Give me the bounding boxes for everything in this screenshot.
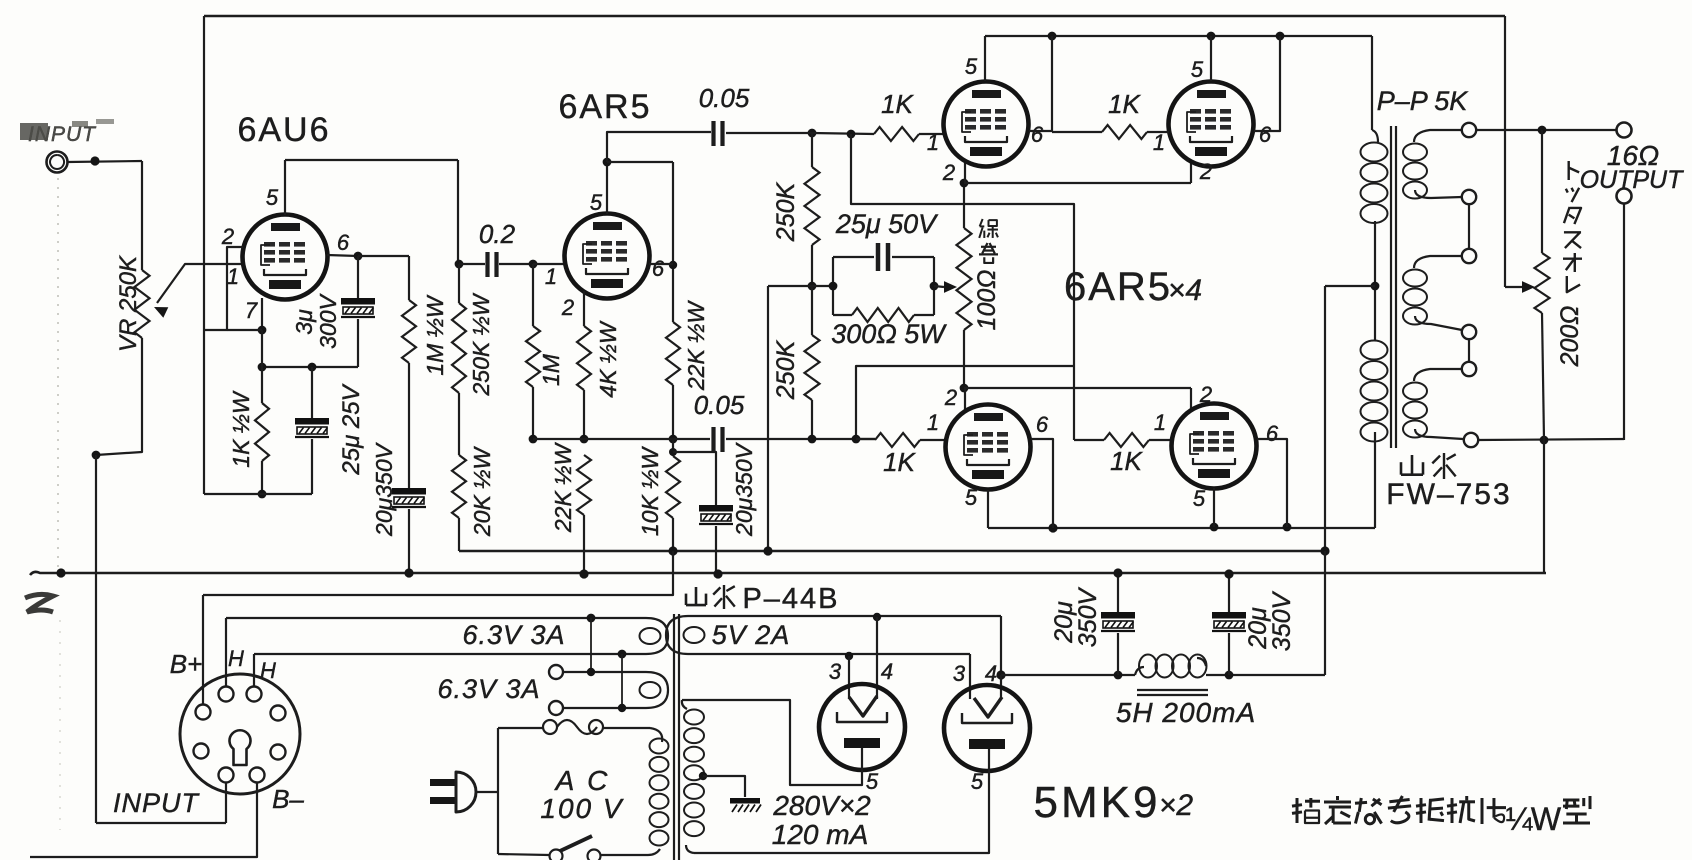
wire to 1K lower-left xyxy=(856,438,875,440)
node ground 20u xyxy=(404,568,413,577)
wire plate node jog up xyxy=(607,132,711,162)
wire heater jumper 1 xyxy=(590,618,592,672)
node filter cap2 xyxy=(1225,671,1234,680)
svg-text:6: 6 xyxy=(1036,412,1049,437)
node ground 22K xyxy=(579,569,588,578)
node 280V center tap xyxy=(699,772,707,780)
transformer T2 OPT core xyxy=(1390,126,1392,448)
socket pin B- xyxy=(250,768,265,783)
output terminal return xyxy=(1617,189,1632,204)
node screen/cap junction xyxy=(354,252,363,261)
terminal 6.3V no.2 b xyxy=(549,701,563,715)
wire V5 cathode stub xyxy=(964,388,966,411)
wire 1M bottom xyxy=(532,387,534,439)
svg-text:FW–753: FW–753 xyxy=(1386,478,1511,511)
node ground filter1 xyxy=(1113,568,1122,577)
node V6 pin5 bus xyxy=(1210,523,1219,532)
svg-text:5: 5 xyxy=(1191,57,1204,82)
svg-text:5V 2A: 5V 2A xyxy=(712,620,791,650)
node cathode resistor top xyxy=(258,363,267,372)
terminal 6.3V no.2 a xyxy=(549,665,563,679)
node lower grid wire 250K xyxy=(808,435,817,444)
ac primary box left xyxy=(497,728,499,854)
node lower cathode xyxy=(960,384,969,393)
wire V6 pin5 riser xyxy=(1213,488,1215,527)
svg-text:3μ: 3μ xyxy=(291,309,317,335)
node B+ bus OPT xyxy=(1320,546,1329,555)
node heater jumper 2b xyxy=(618,704,626,712)
svg-text:3: 3 xyxy=(829,659,842,684)
ac primary box top + fuse xyxy=(498,727,543,729)
wire 1K upper-right feed xyxy=(1052,131,1102,133)
secondary terminal 5 xyxy=(1462,362,1476,376)
svg-text:5: 5 xyxy=(590,190,603,215)
transformer T2 OPT secondary winding C xyxy=(1414,369,1462,381)
node B+ socket crossing xyxy=(671,550,673,552)
wire V6 cathode stub xyxy=(1190,388,1192,409)
node ground bus dot1 xyxy=(56,568,65,577)
resistor 1K stopper lower-right xyxy=(1104,433,1149,447)
wire input return bottom run xyxy=(96,822,226,824)
resistor 100 ohm wirewound hum balance xyxy=(957,228,972,330)
node cathode bottom xyxy=(258,490,267,499)
resistor 300 ohm 5W xyxy=(852,308,914,322)
socket pin NC3 xyxy=(271,745,286,760)
svg-text:1: 1 xyxy=(927,410,939,435)
node rectifier output xyxy=(996,670,1005,679)
wire secondary top to output terminal xyxy=(1476,129,1616,131)
wire cathode network horizontal xyxy=(262,366,358,368)
node grid return B+ bus xyxy=(763,546,772,555)
wire plate node right xyxy=(607,161,673,163)
resistor 1K stopper upper-right xyxy=(1102,125,1147,139)
INPUT jack terminal xyxy=(47,152,68,173)
wire plate bus to OPT xyxy=(1371,36,1373,130)
svg-text:2: 2 xyxy=(944,385,957,410)
wire secondary link A-B xyxy=(1468,204,1470,249)
svg-text:2: 2 xyxy=(1199,382,1212,407)
svg-text:2: 2 xyxy=(942,160,955,185)
node V4 pin6 bus xyxy=(1276,32,1285,41)
wire B+ socket feed xyxy=(203,551,673,595)
wire 0.2 to driver grid xyxy=(499,263,531,265)
wire 100ohm bottom riser xyxy=(963,330,965,388)
resistor 1M grid xyxy=(526,326,540,387)
wire V5 pin6 xyxy=(1031,439,1053,528)
wire border right edge feedback line xyxy=(1504,16,1506,287)
wire V2 pin6 xyxy=(649,263,673,265)
svg-text:6: 6 xyxy=(652,256,665,281)
wire 1M to filter cap xyxy=(408,363,410,488)
wire VR bottom xyxy=(96,338,142,455)
wire V3 pin6 xyxy=(1029,36,1052,131)
svg-text:6AU6: 6AU6 xyxy=(237,111,330,149)
wire top border xyxy=(204,15,1505,18)
rectifier winding 5V 2A xyxy=(666,616,688,654)
wire bias node run xyxy=(533,438,710,440)
resistor 4K 1/2W cathode xyxy=(577,326,591,390)
transformer T2 OPT primary lower xyxy=(1361,341,1388,360)
node speaker feedback tap xyxy=(1538,126,1547,135)
wire 250K to 20K xyxy=(458,393,460,455)
wire V5 pin5 riser xyxy=(987,490,989,528)
wire secondary link B-C xyxy=(1468,339,1470,362)
wire 100ohm top riser xyxy=(963,183,965,228)
transformer T1 core xyxy=(673,614,675,860)
wire 3u cap from screen node xyxy=(357,256,359,298)
svg-text:1M ½W: 1M ½W xyxy=(422,294,448,376)
socket pin H1 xyxy=(219,687,234,702)
smudge mark lower-left xyxy=(25,594,53,612)
svg-text:6AR5: 6AR5 xyxy=(1064,265,1172,309)
resistor 1K stopper upper-left xyxy=(874,127,919,141)
svg-text:4K ½W: 4K ½W xyxy=(595,320,621,398)
ground symbol 280V CT xyxy=(730,798,760,804)
wire V1 pin7 stub xyxy=(261,298,263,330)
svg-text:5: 5 xyxy=(1193,486,1206,511)
svg-text:6AR5: 6AR5 xyxy=(558,88,651,126)
node ground 20u driver xyxy=(713,569,722,578)
capacitor 0.05 upper coupling xyxy=(711,121,715,146)
octal socket power connector xyxy=(180,674,300,794)
wire pin2 loop xyxy=(204,247,243,330)
svg-text:250K ½W: 250K ½W xyxy=(468,292,494,396)
capacitor 3u 300V xyxy=(341,298,375,305)
heater winding 6.3V no.1 xyxy=(226,617,646,619)
wire grid return drop xyxy=(767,286,769,551)
svg-text:5: 5 xyxy=(965,54,978,79)
tube V4 6AR5 upper-right xyxy=(1169,82,1254,167)
svg-text:350V: 350V xyxy=(1268,590,1296,651)
svg-text:1: 1 xyxy=(927,130,939,155)
svg-text:6: 6 xyxy=(1259,122,1272,147)
resistor 1M 1/2W screen xyxy=(402,300,416,363)
svg-text:20K ½W: 20K ½W xyxy=(469,446,495,537)
wire V2 cathode stub xyxy=(583,291,585,326)
ac plug prongs xyxy=(430,779,456,786)
node bias node left xyxy=(529,435,538,444)
socket keyway xyxy=(230,730,251,765)
node upper cathode xyxy=(960,179,969,188)
wire 0.05 to 1K stoppers xyxy=(726,132,812,134)
svg-text:2: 2 xyxy=(1199,159,1212,184)
node heater jumper 2a xyxy=(618,650,627,659)
svg-text:25μ 25V: 25μ 25V xyxy=(338,383,365,475)
wire input return down left side xyxy=(95,455,97,823)
wire V8 plate loop xyxy=(694,749,989,853)
wire V1 screen from pin6 xyxy=(327,255,358,256)
secondary terminal 3 xyxy=(1462,249,1476,263)
svg-text:25μ 50V: 25μ 50V xyxy=(835,209,939,239)
wire upper plate bus xyxy=(985,35,1372,37)
label reosutatto katakana xyxy=(1567,276,1580,292)
svg-text:100 V: 100 V xyxy=(540,793,623,824)
wire grid return left xyxy=(768,285,812,287)
wire V7 pin4 riser xyxy=(876,617,878,699)
svg-text:6: 6 xyxy=(337,230,350,255)
wire 22K down xyxy=(672,385,674,439)
potentiometer VR 250K xyxy=(135,270,150,338)
wire to 20u cap xyxy=(673,452,716,505)
wire 22K to ground xyxy=(583,515,585,574)
wire screen run right xyxy=(358,255,409,257)
svg-text:5: 5 xyxy=(266,185,279,210)
wire plug to primary box xyxy=(477,791,498,793)
wire plate run down to coupling xyxy=(457,160,459,264)
wire to 1K lower-right xyxy=(1074,439,1104,441)
label Sansui FW-753 (kanji) xyxy=(1411,455,1414,475)
svg-text:1K: 1K xyxy=(883,447,916,477)
node box left xyxy=(829,282,838,291)
wire INPUT pin stub xyxy=(225,782,227,823)
node heater jumper 1a xyxy=(587,614,596,623)
svg-text:VR 250K: VR 250K xyxy=(115,255,142,352)
wire 3u bottom xyxy=(357,319,359,367)
node rheostat bottom xyxy=(1540,436,1549,445)
wire junction to 10K xyxy=(672,439,674,456)
wire B+ riser to bus xyxy=(1324,286,1326,551)
svg-text:5H 200mA: 5H 200mA xyxy=(1116,697,1256,728)
wire 1K into V5 xyxy=(920,439,946,441)
socket pin INPUT xyxy=(219,768,234,783)
svg-text:1K: 1K xyxy=(881,89,914,119)
svg-text:6.3V 3A: 6.3V 3A xyxy=(462,620,565,650)
node V6 pin6 bus xyxy=(1283,523,1292,532)
svg-text:A C: A C xyxy=(554,765,611,796)
socket pin H2 xyxy=(247,687,262,702)
transformer T2 OPT secondary winding A xyxy=(1414,130,1462,142)
resistor 22K 1/2W plate load xyxy=(666,322,680,385)
wire 0.2 node down xyxy=(458,264,460,303)
hv winding 280V xyxy=(682,700,687,709)
wire V6 pin6 xyxy=(1257,439,1287,527)
capacitor 20u 350V (driver B+) xyxy=(699,505,733,512)
label makisen kanji xyxy=(981,246,996,248)
node box right xyxy=(930,282,939,291)
node VR bottom xyxy=(92,451,101,460)
resistor 20K 1/2W xyxy=(452,455,466,518)
wire left border (input ground) xyxy=(203,16,205,494)
node cathode bypass xyxy=(308,363,317,372)
svg-text:6: 6 xyxy=(1031,122,1044,147)
node filter cap1 xyxy=(1114,671,1123,680)
wire cap to ground bus xyxy=(408,509,410,573)
resistor 250K grid upper xyxy=(811,133,813,167)
node grid return mid xyxy=(808,282,817,291)
wire lower plate bus xyxy=(988,527,1375,529)
wire V1 plate riser xyxy=(284,160,286,215)
wire VR wiper to 6AU6 grid xyxy=(157,264,244,303)
ac primary winding xyxy=(650,728,662,742)
wire ground bus xyxy=(30,572,1546,575)
wire B+ bus to choke xyxy=(1324,551,1326,675)
node cap takeoff xyxy=(669,448,677,456)
capacitor 0.2 coupling xyxy=(485,252,489,277)
heater winding 6.3V no.2 xyxy=(563,671,646,673)
wire center tap to B+ xyxy=(1325,285,1375,287)
socket pin NC2 xyxy=(194,744,209,759)
choke 5H 200mA xyxy=(1135,667,1144,675)
box 25u50V + 300 ohm xyxy=(833,256,874,258)
svg-text:P–P 5K: P–P 5K xyxy=(1377,86,1469,116)
node bias node xyxy=(580,435,589,444)
node upper grid wire 250K xyxy=(808,129,817,138)
resistor 250K 1/2W xyxy=(452,303,466,393)
svg-text:3: 3 xyxy=(953,661,966,686)
wire 250K junction xyxy=(811,245,813,286)
capacitor 20u 350V filter 1 xyxy=(1117,573,1119,612)
tube V3 6AR5 upper-left xyxy=(944,82,1029,167)
wire VR riser xyxy=(141,161,143,270)
node crossover xyxy=(852,435,861,444)
wire 1K into V6 xyxy=(1149,439,1172,441)
label Sansui P-44B (kanji) xyxy=(695,587,698,605)
socket pin B+ xyxy=(196,705,211,720)
node B+ bus 10K xyxy=(668,546,677,555)
svg-text:22K ½W: 22K ½W xyxy=(683,300,709,391)
wire screen dropper riser xyxy=(408,256,410,300)
wire 20u to ground xyxy=(715,526,717,574)
svg-text:0.05: 0.05 xyxy=(699,83,750,113)
svg-text:P–44B: P–44B xyxy=(742,583,839,615)
svg-text:4: 4 xyxy=(985,661,997,686)
wire output return run xyxy=(1478,439,1624,440)
svg-text:6: 6 xyxy=(1266,421,1279,446)
svg-text:6.3V 3A: 6.3V 3A xyxy=(437,674,540,704)
tube V8 5MK9 rectifier xyxy=(944,685,1030,771)
wire center tap to ground sym xyxy=(703,776,745,797)
wire choke output xyxy=(1206,674,1325,676)
svg-text:B+: B+ xyxy=(170,649,203,679)
wire output return down xyxy=(1623,203,1625,440)
wire rectifier output run xyxy=(1001,674,1135,676)
svg-text:7: 7 xyxy=(245,298,258,323)
tube V1 6AU6 xyxy=(243,215,328,300)
svg-text:4: 4 xyxy=(881,659,893,684)
svg-text:10K ½W: 10K ½W xyxy=(637,446,663,536)
wire heater jumper 2 xyxy=(621,654,623,708)
wire pin7 down xyxy=(261,330,263,367)
capacitor 0.05 lower coupling xyxy=(711,427,715,452)
wire V3 pin5 riser xyxy=(984,36,986,81)
transformer T2 OPT secondary winding B xyxy=(1414,256,1462,268)
tube V2 6AR5 driver xyxy=(565,214,650,299)
node feedback junction xyxy=(669,435,678,444)
capacitor 20u350V (first stage) xyxy=(392,488,426,495)
tube V5 6AR5 lower-left xyxy=(946,405,1031,490)
node driver grid xyxy=(529,260,538,269)
node heater jumper 1b xyxy=(587,668,595,676)
wire 4K bottom xyxy=(583,390,585,439)
secondary terminal 4 xyxy=(1462,325,1476,339)
svg-text:20μ350V: 20μ350V xyxy=(731,441,757,537)
wire V8 pin3 riser xyxy=(969,654,971,699)
node ground filter2 xyxy=(1224,569,1233,578)
svg-text:1K ½W: 1K ½W xyxy=(228,390,254,468)
wire B+ pin riser xyxy=(202,595,204,705)
tube V7 5MK9 rectifier xyxy=(819,684,905,770)
wire H1 riser xyxy=(225,618,227,687)
node pin7 xyxy=(258,326,267,335)
capacitor 25u 25V bypass xyxy=(311,367,313,418)
svg-text:¼: ¼ xyxy=(1506,801,1534,837)
node V7 pin4 takeoff xyxy=(873,613,881,621)
svg-text:1: 1 xyxy=(1153,130,1165,155)
wire OPT primary bottom xyxy=(1374,432,1376,528)
svg-text:2: 2 xyxy=(561,295,574,320)
resistor 22K 1/2W lower-left xyxy=(577,455,591,515)
scan crease (faint) xyxy=(57,178,59,568)
svg-text:250K: 250K xyxy=(772,181,800,242)
svg-text:5MK9: 5MK9 xyxy=(1034,778,1161,827)
wire driver grid down xyxy=(532,264,534,326)
capacitor 25u 50V xyxy=(876,243,881,271)
resistor 1K 1/2W cathode xyxy=(261,367,263,403)
label shitei naki teikou (kanji sentence) xyxy=(1296,798,1299,823)
transformer T2 OPT primary upper xyxy=(1372,130,1378,142)
resistor 1K stopper lower-left xyxy=(875,433,920,447)
svg-text:350V: 350V xyxy=(1074,586,1102,647)
node V4 pin5 bus xyxy=(1207,32,1216,41)
svg-text:OUTPUT: OUTPUT xyxy=(1580,166,1685,194)
svg-text:1: 1 xyxy=(1154,410,1166,435)
svg-text:INPUT: INPUT xyxy=(113,788,201,818)
wire 5V top to V8 pin4 xyxy=(1000,616,1002,675)
node V5 pin6 bus xyxy=(1048,523,1057,532)
wire 1K into V3 xyxy=(919,133,944,135)
resistor 10K 1/2W xyxy=(666,456,680,518)
wire 20K to B+ bus xyxy=(458,518,460,551)
svg-text:2: 2 xyxy=(221,224,234,249)
wire crossover grid feed upper-to-lower xyxy=(851,134,1074,440)
ac primary box bottom + switch xyxy=(498,854,549,855)
svg-text:1M: 1M xyxy=(538,353,564,386)
svg-text:20μ350V: 20μ350V xyxy=(371,441,397,537)
capacitor 20u 350V filter 2 xyxy=(1228,574,1230,612)
svg-text:0.2: 0.2 xyxy=(479,219,516,249)
wire 250K lower to grid wire xyxy=(811,400,813,439)
svg-text:1: 1 xyxy=(545,264,557,289)
svg-text:1K: 1K xyxy=(1110,446,1143,476)
wire feedback to rheostat wiper + arrow xyxy=(1505,286,1523,288)
svg-text:H: H xyxy=(260,658,276,683)
output terminal 16ohm hot xyxy=(1617,123,1632,138)
ac plug body xyxy=(456,772,476,812)
node V2 plate xyxy=(603,158,612,167)
wire crossover branch xyxy=(856,366,1074,439)
svg-text:300V: 300V xyxy=(315,292,341,348)
node input junction xyxy=(90,156,99,165)
resistor 250K grid lower xyxy=(811,286,813,335)
svg-text:×4: ×4 xyxy=(1168,274,1202,307)
node V2 screen xyxy=(669,261,677,269)
wire 0.05 lower right xyxy=(726,438,875,440)
svg-text:B–: B– xyxy=(272,784,304,814)
wire upper cathode run xyxy=(964,182,1191,184)
wire cathode bottom run xyxy=(204,493,312,495)
wire V2 plate riser xyxy=(606,162,608,214)
wire 10K to B+ bus xyxy=(672,518,674,551)
rheostat 200 ohm xyxy=(1541,130,1543,253)
wire H2 riser xyxy=(253,654,255,687)
wire V4 cathode stub xyxy=(1190,162,1192,183)
node OPT center tap xyxy=(1371,282,1380,291)
wire V1 plate top run xyxy=(285,159,458,161)
svg-text:×2: ×2 xyxy=(1159,789,1194,822)
wire V3 cathode stub xyxy=(964,162,966,183)
wiper arrow VR xyxy=(154,307,168,318)
wire V7 plate loop xyxy=(682,700,862,785)
